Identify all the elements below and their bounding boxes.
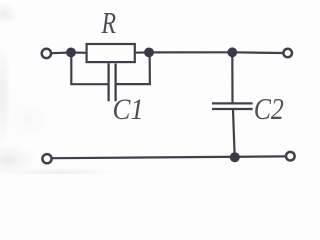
junction node D (230, 152, 240, 162)
capacitor C1 (109, 63, 116, 101)
wire node B to node C (149, 51, 232, 53)
wire C2 down to node D (233, 110, 235, 157)
wire node C down to C2 (231, 52, 233, 102)
junction node C (227, 47, 237, 57)
capacitor C2 (212, 103, 253, 109)
wire resistor R to node B (134, 51, 149, 53)
svg-text:C2: C2 (254, 92, 284, 126)
wire C1 right lead (right and up to node B) (117, 53, 150, 84)
terminal bottom-left (42, 154, 51, 163)
wire C1 left lead (node A down and right) (71, 53, 107, 84)
wire node C to top-right terminal (232, 51, 282, 54)
resistor R (87, 44, 135, 62)
wire node A to resistor R (71, 51, 87, 53)
junction node A (66, 48, 76, 58)
junction node B (144, 48, 154, 58)
wire bottom rail (53, 156, 285, 158)
terminal top-left (42, 49, 51, 58)
svg-text:C1: C1 (113, 94, 144, 126)
terminal top-right (283, 49, 292, 58)
svg-text:R: R (101, 5, 116, 40)
wire top-left terminal to node A (52, 51, 67, 54)
terminal bottom-right (286, 152, 295, 161)
